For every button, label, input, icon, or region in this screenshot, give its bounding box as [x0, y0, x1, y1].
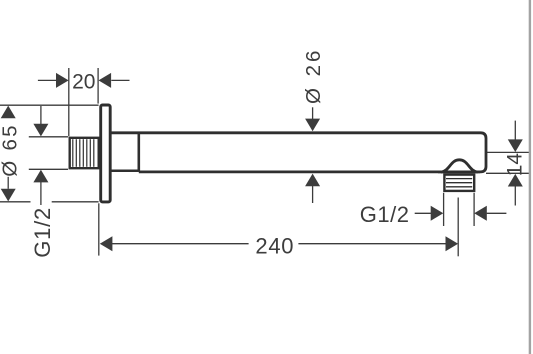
svg-text:20: 20 [72, 71, 95, 94]
svg-text:240: 240 [255, 234, 294, 259]
svg-text:G1/2: G1/2 [30, 207, 55, 258]
svg-text:14: 14 [504, 153, 527, 177]
svg-text:Ø 26: Ø 26 [302, 48, 325, 104]
svg-text:Ø 65: Ø 65 [0, 123, 21, 177]
svg-text:G1/2: G1/2 [360, 202, 410, 227]
